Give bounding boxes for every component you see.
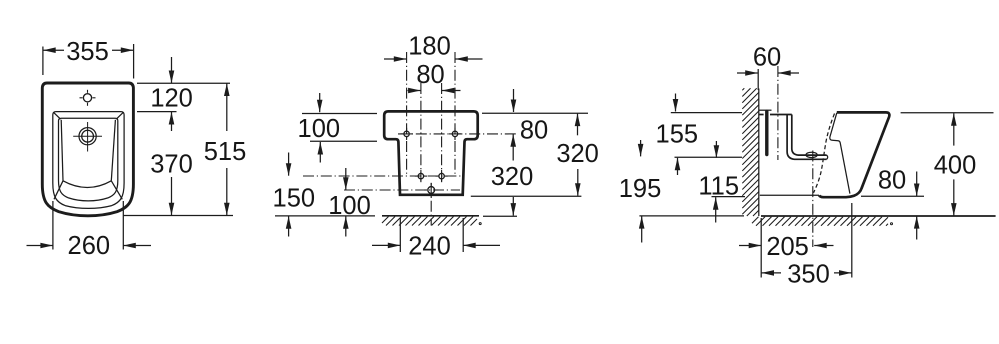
dim 205 arrow right [814,243,833,249]
dim 355 extension line left [42,47,44,76]
dim 370 arrow down [169,177,175,215]
top view: rim inner line [59,118,118,201]
svg-text:180: 180 [408,33,451,61]
svg-text:150: 150 [273,185,316,213]
dim 515 arrow up [224,84,230,132]
dim 180 arrow left [384,56,406,62]
top view: rim corner bevel left [54,112,61,119]
dim 80 top arrow right [442,88,461,94]
top view: faucet hole inner circle [82,130,94,142]
side view: top ledge line segment B [770,114,792,116]
dim 155 bottom extension line (rim channel) [675,156,743,158]
dim 240 arrow left [372,243,400,249]
svg-text:120: 120 [150,85,193,113]
centerline fixing holes horizontal [398,133,519,135]
svg-text:350: 350 [787,260,830,288]
svg-text:355: 355 [66,38,109,66]
dim 260 arrow left-side [27,243,53,249]
dim 100 left bottom extension line [310,140,377,142]
dim 155 arrow down [673,94,679,112]
dim 100 left top extension line [302,113,377,115]
svg-text:240: 240 [408,233,451,261]
dim 350 extension line front [851,203,853,278]
dim 260 arrow right-side [123,243,151,249]
back view: fixing hole left [401,128,413,140]
svg-text:320: 320 [556,140,599,168]
top view: basin slant right [111,181,122,200]
side view: fixing bracket bar [765,112,768,155]
side view: rim back outer line with channel bottom [787,115,827,160]
svg-text:320: 320 [491,163,534,191]
svg-text:80: 80 [416,61,444,89]
dim 60 arrow right [778,70,799,76]
centerline drain vertical [430,183,432,226]
side view: floor line [761,215,996,217]
top view: fixing hole symbol [80,90,96,106]
dim 100 bottom arrow up [343,216,349,236]
dim 115 arrow down [714,141,720,158]
dim 80 top arrow left [408,88,421,94]
centerline drain axis vertical [812,151,814,248]
dim 355 arrow left [43,47,64,53]
dim 355 extension line right [133,44,135,79]
dim 320 inner arrow down [511,197,517,216]
side view: rim back inner line with channel top [792,115,827,156]
svg-text:195: 195 [619,175,662,203]
back view: fixing hole right [449,128,461,140]
dim 370/515 bottom extension line [123,215,233,217]
dim 350 arrow right [834,270,852,276]
dim 320 outer arrow down [575,169,581,196]
back view: floor line [382,215,479,217]
dim 100 left arrow down [317,93,323,112]
dim 115 arrow up [713,197,719,222]
svg-text:400: 400 [934,152,977,180]
centerline fixing hole right vertical [454,52,456,174]
dim 150 arrow up [286,216,292,236]
dim 120 bottom extension line (rim) [137,111,177,113]
dim 80 right top extension line [482,112,588,114]
centerline lower hole right vertical [441,83,443,182]
back view: lower hole left [415,170,427,182]
wall face line [758,89,760,217]
svg-text:80: 80 [878,167,906,195]
svg-text:370: 370 [150,150,193,178]
top view: faucet crosshair vertical [87,122,89,152]
dim 100 left arrow up [318,142,324,163]
dim 400 top extension line [901,112,994,114]
floor extension line left of wall [639,215,744,217]
top view: rim corner bevel right [116,112,123,119]
side view: channel end cap [827,155,828,159]
centerline fixing hole left vertical [406,52,408,174]
dim 400 arrow down [951,179,957,215]
side view: hidden bowl curve (dashed) [814,114,835,193]
centerline fixing hole axis vertical [777,66,779,160]
top view: faucet crosshair horizontal [73,135,102,137]
svg-text:100: 100 [298,115,341,143]
svg-text:155: 155 [656,121,699,149]
side view: top ledge line segment A [759,114,764,116]
top view: basin slant left [54,181,63,200]
dim 240 arrow right [463,243,500,249]
dim 195 arrow up [639,216,645,242]
dim 240 extension line right [462,218,464,252]
side view: underside thin line [760,194,819,196]
dim 155 top extension line [671,112,742,114]
back view: floor hatching [382,217,477,226]
svg-text:60: 60 [753,43,781,71]
side view: water inlet ellipse [806,152,817,157]
centerline lower holes horizontal [303,175,461,177]
dim 350 arrow left [762,270,782,276]
dim 80 side arrow down [914,172,920,197]
dim 60 arrow left [737,70,758,76]
dim 80 side arrow up [914,216,920,239]
dim 515 arrow down [224,168,230,215]
top view: faucet hole outer circle [79,128,96,145]
floor extension line left [275,215,375,217]
dim 120 top extension line [137,82,230,84]
dim 80 right arrow up [510,134,516,160]
back view: drain hole [424,183,438,197]
side view: bracket top line [759,109,772,111]
dim 240 extension line left [399,218,401,252]
dim 320 inner bottom extension line [471,195,582,197]
dim 205 arrow left [739,243,761,249]
top view: basin wall left [61,120,63,181]
wall hatching [742,88,759,216]
back view: floor hatch end dot [479,223,481,225]
dim 115 bottom extension line [712,196,746,198]
dim 205/350 extension line wall [760,218,762,278]
dim 100 bottom arrow down [343,168,349,190]
floor extension line right [483,215,517,217]
svg-text:80: 80 [520,117,548,145]
svg-text:515: 515 [204,138,247,166]
top view: bidet outer outline [42,83,133,216]
side view: front outer outline [819,112,889,197]
svg-text:115: 115 [698,173,739,201]
centerline drain horizontal [344,189,460,191]
dim 260 extension line left [52,201,54,250]
dim 180 arrow right [455,56,482,62]
side view: floor hatching [752,217,888,226]
dim 355 arrow right [112,47,133,53]
dim 400 arrow up [951,113,957,145]
dim 120 arrow down [169,57,175,83]
side view: floor hatch end dot [891,223,893,225]
side view: front inner line with step [830,113,850,194]
top view: rim outer line [53,112,124,209]
svg-text:205: 205 [766,233,809,261]
svg-text:260: 260 [68,232,111,260]
top view: basin floor arc [63,181,111,188]
dim 120 arrow up [169,112,175,131]
back view: lower hole right [436,170,448,182]
dim 150 arrow down [286,153,292,176]
dim 195 arrow down [638,140,644,156]
dim 320 outer arrow up [575,114,581,136]
dim 260 extension line right [122,201,124,250]
dim 80 right arrow down [511,89,517,112]
dim 60 extension line [757,69,759,90]
back view: body outline [384,111,478,194]
svg-text:100: 100 [328,192,371,220]
centerline lower hole left vertical [420,83,422,182]
dim 80 side extension line [861,195,924,197]
dim 155 arrow up [675,158,681,175]
top view: basin wall right [111,120,115,181]
